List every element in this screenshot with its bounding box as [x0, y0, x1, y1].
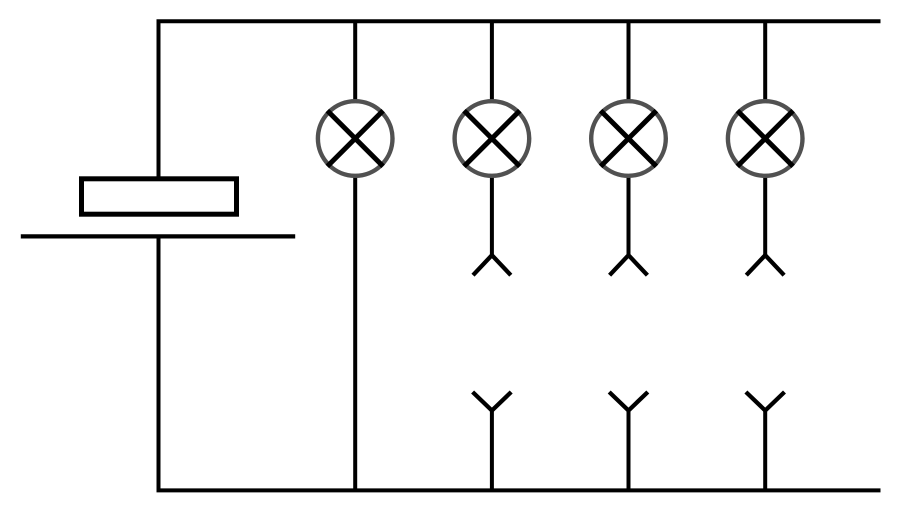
lamp L1 circle	[318, 101, 393, 176]
battery B1 negative plate (long line)	[21, 234, 295, 238]
lamp L2 circle	[455, 101, 530, 176]
lamp L4 X	[737, 111, 793, 167]
wire branch 3 upper vertical	[627, 21, 631, 255]
open terminal fork upper branch 3	[610, 255, 648, 275]
open terminal fork lower branch 2	[473, 392, 512, 411]
wire branch 3 lower vertical	[627, 411, 631, 491]
open terminal fork upper branch 4	[746, 255, 784, 275]
wire branch 4 lower vertical	[763, 411, 767, 491]
battery B1 positive plate (rectangle)	[82, 179, 237, 214]
wire branch 2 lower vertical	[490, 411, 494, 491]
open terminal fork lower branch 3	[609, 392, 648, 411]
lamp L1 X	[327, 111, 383, 167]
lamp L2 X	[464, 111, 520, 167]
lamp L3 X	[601, 111, 657, 167]
wire: left vertical + top bus	[159, 21, 881, 176]
wire: left vertical lower + bottom bus	[159, 236, 881, 490]
open terminal fork lower branch 4	[746, 392, 785, 411]
wire branch 1 vertical	[353, 21, 357, 490]
lamp L3 circle	[591, 101, 666, 176]
wire branch 2 upper vertical	[490, 21, 494, 255]
lamp L4 circle	[728, 101, 803, 176]
open terminal fork upper branch 2	[473, 255, 511, 275]
wire branch 4 upper vertical	[763, 21, 767, 255]
